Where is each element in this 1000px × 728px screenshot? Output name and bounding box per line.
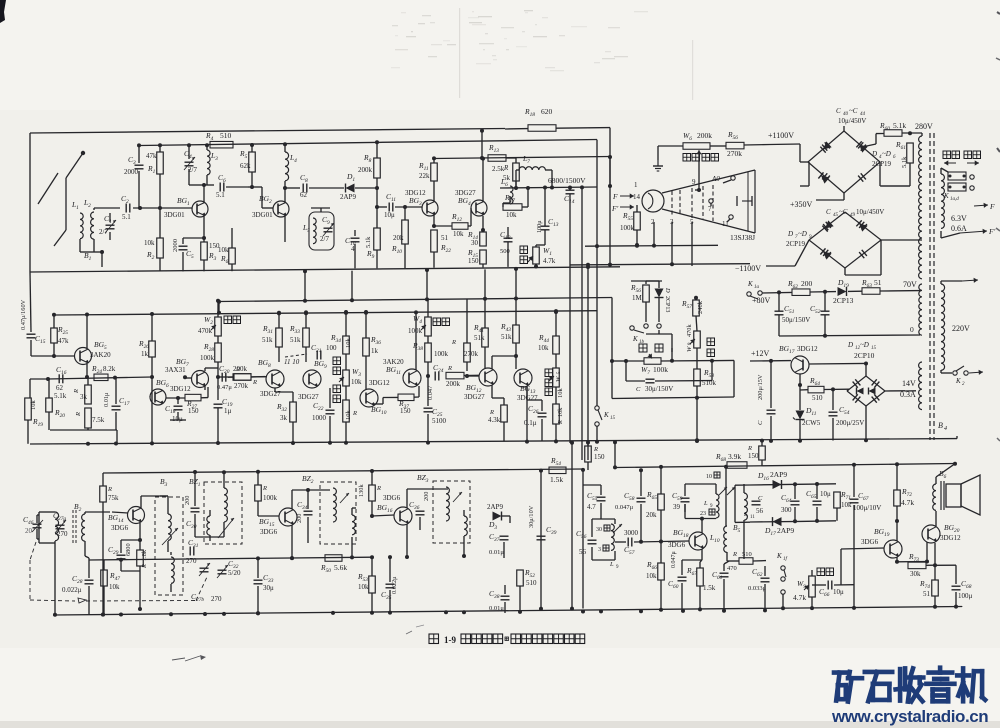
capacitor C12 500 [500, 230, 513, 255]
label 11 10 [284, 358, 300, 366]
osc tank top [685, 484, 716, 519]
wire frame left vertical [29, 133, 31, 272]
svg-text:130k: 130k [358, 484, 365, 497]
ecap C68 100u [952, 579, 973, 600]
BZ1 coil [218, 488, 234, 538]
svg-text:K: K [776, 552, 782, 560]
trimmer C32 5/20 [217, 559, 241, 578]
bridge2 diodes [820, 220, 867, 259]
svg-text:~C: ~C [839, 208, 848, 216]
wire R21s [433, 252, 435, 268]
wire R74 [933, 596, 937, 609]
svg-text:2CP19: 2CP19 [786, 240, 806, 248]
wire W1 [534, 245, 545, 269]
wire R36 [364, 310, 368, 389]
capacitor C30 200 [184, 496, 200, 530]
svg-text:270k: 270k [234, 382, 249, 390]
svg-text:F′: F′ [988, 227, 996, 236]
resistor R74 51 [919, 579, 938, 598]
wire L3 [204, 143, 214, 185]
wire BG5 emitter [85, 364, 89, 379]
ecap C54 200u/25V [829, 405, 865, 427]
capacitor C60 0.047u [668, 551, 687, 590]
wire R60 [862, 131, 922, 147]
svg-text:5.1: 5.1 [216, 191, 225, 199]
wire C6 right [226, 186, 248, 188]
svg-text:2CP10: 2CP10 [854, 351, 875, 360]
wire bright node left [612, 359, 644, 363]
tank L9 arrow [613, 524, 622, 533]
pot W3 10k [339, 367, 362, 386]
wire BG2 collector [284, 188, 286, 202]
label B1 [84, 251, 92, 262]
svg-text:100k: 100k [434, 350, 449, 358]
svg-text:2/7: 2/7 [99, 228, 108, 236]
svg-text:3: 3 [598, 547, 601, 553]
svg-text:200: 200 [184, 496, 191, 505]
svg-text:0: 0 [910, 325, 914, 334]
svg-text:C: C [757, 420, 764, 425]
svg-text:1-9: 1-9 [444, 635, 456, 645]
resistor R38 100k [412, 341, 449, 362]
svg-text:200k: 200k [446, 380, 461, 388]
svg-text:22k: 22k [419, 172, 430, 180]
capacitor C16 62 [56, 365, 67, 392]
tank L5 C9 [302, 212, 334, 250]
labels R14 [467, 230, 479, 247]
wire C29 [121, 540, 140, 571]
svg-text:470: 470 [727, 565, 737, 572]
svg-text:R: R [262, 485, 267, 492]
wire R71 [836, 508, 838, 521]
svg-text:+12V: +12V [751, 349, 770, 358]
wire +1100V [770, 144, 809, 162]
svg-text:F: F [612, 192, 618, 201]
wire top frame [30, 129, 505, 134]
svg-text:R: R [75, 412, 82, 417]
capacitor C15 [20, 299, 46, 344]
svg-text:3DG01: 3DG01 [164, 211, 185, 219]
winding 6.3V [941, 174, 944, 228]
resistor R41 51k [473, 323, 488, 347]
speaker [946, 475, 980, 515]
capacitor C31 270 [190, 547, 194, 556]
transistor BG12 3DG27 [464, 368, 497, 401]
rail y264 [570, 263, 750, 267]
wire R46 [102, 473, 104, 515]
resistor R70 150 [759, 446, 766, 460]
resistor R33 51k [289, 324, 309, 347]
wire B3 sec [170, 552, 172, 592]
resistor R27 150 [185, 394, 201, 415]
svg-text:3k: 3k [280, 414, 288, 422]
capacitor C34 200 [296, 500, 313, 523]
wire AGC [89, 556, 371, 562]
label C20 [217, 364, 248, 391]
svg-text:100k: 100k [653, 365, 668, 374]
svg-text:2/7: 2/7 [320, 235, 329, 243]
transformer core [930, 133, 934, 440]
label BZ3 [417, 473, 429, 484]
svg-text:5.1k: 5.1k [365, 236, 372, 248]
resistor R31 51k [262, 324, 282, 347]
wire R2 [159, 208, 161, 271]
pot W8 470k [686, 324, 700, 352]
wire C51 [777, 290, 781, 336]
svg-text:4.3k: 4.3k [488, 416, 501, 424]
svg-text:~C: ~C [849, 107, 858, 115]
label 0 tap [910, 325, 914, 334]
wire R64 [800, 385, 849, 391]
resistor R63 51 [861, 278, 882, 294]
svg-text:10μ: 10μ [820, 490, 831, 498]
svg-text:0.022μ: 0.022μ [62, 586, 82, 594]
svg-text:K: K [943, 192, 949, 200]
resistor R9 5.1k [365, 228, 380, 260]
capacitor C8 62 [300, 173, 308, 199]
svg-text:1a,d: 1a,d [950, 197, 959, 202]
wire R12 [434, 208, 471, 226]
svg-text:270k: 270k [727, 149, 742, 158]
wire CRT F leads [611, 192, 634, 213]
labels R21s [440, 234, 451, 254]
label 3000 C57 [624, 529, 639, 556]
labels R8 [358, 153, 373, 174]
wire crt pin2 drop [652, 222, 656, 248]
bridge D4-D6 diodes [818, 141, 867, 183]
resistor R28 100k [200, 342, 221, 362]
wire BG4 collector [481, 157, 485, 201]
svg-text:+80V: +80V [752, 296, 771, 305]
wire R38 down [426, 362, 430, 378]
bridge D4-D6 [808, 131, 880, 193]
wire x572 down [570, 441, 574, 611]
wire BG19 emitter [895, 557, 927, 564]
svg-text:3DG6: 3DG6 [668, 541, 686, 549]
inductor L4 [285, 152, 297, 181]
transistor BG18 3DG6 [668, 528, 707, 550]
wire BG1 emitter [203, 216, 205, 238]
wire bridge right [879, 162, 881, 186]
resistor R47 10k [101, 570, 121, 591]
resistor R39 200k [446, 365, 464, 388]
svg-text:50μ/150V: 50μ/150V [782, 316, 810, 324]
svg-text:8.2k: 8.2k [103, 365, 116, 373]
wire C67 [852, 463, 856, 610]
diode D1 2AP9 [340, 172, 356, 201]
svg-text:10k: 10k [506, 211, 517, 219]
wire C36 [419, 517, 421, 530]
wire C8 [285, 187, 344, 189]
svg-text:5100: 5100 [432, 417, 447, 425]
wire BG4 emitter [481, 216, 485, 232]
switch K14 block [948, 172, 974, 191]
ecap C53 200u/15V [757, 374, 776, 425]
BZ1 box [204, 482, 242, 544]
wire R66 [659, 542, 663, 612]
resistor R26 1k [138, 339, 155, 358]
capacitor C38 0.01u [489, 589, 510, 612]
resistor R44 10k [538, 333, 559, 354]
wire +350V [816, 186, 910, 200]
ecap C67 100u/10V [850, 491, 882, 512]
wire C33 [256, 558, 260, 615]
svg-text:51: 51 [441, 234, 449, 242]
label TV radio switch [943, 151, 981, 159]
ecap C50 [636, 379, 673, 393]
transistor BG16 3DG6 [377, 494, 412, 525]
transformer B2 [55, 510, 85, 543]
wire B6 [936, 462, 957, 525]
wire 220V bottom switch [941, 370, 952, 373]
wire R15 [482, 264, 484, 267]
wire rail to B4 [956, 436, 958, 439]
svg-text:470k: 470k [686, 324, 693, 337]
volume pot W9 4.7k [793, 576, 815, 602]
wire W4 [427, 299, 429, 343]
label 10 turns [706, 472, 720, 480]
vertical x103 down [101, 515, 105, 617]
svg-text:200μ/15V: 200μ/15V [757, 374, 764, 400]
resistor R4 510 [205, 131, 233, 148]
wire R41 [484, 299, 486, 368]
svg-text:100: 100 [326, 344, 337, 352]
svg-text:3DG6: 3DG6 [111, 524, 129, 532]
capacitor C55 4.7 [587, 491, 606, 511]
wire BG14 emitter [138, 523, 142, 542]
wire K15 down [595, 426, 599, 444]
resistor R51 130k [358, 484, 381, 501]
stray mark bottom-left [172, 655, 206, 661]
svg-text:D: D [847, 341, 853, 349]
svg-text:5.1: 5.1 [122, 213, 131, 221]
transistor BG17 3DG12 [779, 344, 818, 374]
crt grid dashes [672, 185, 713, 221]
svg-text:1.5k: 1.5k [550, 475, 563, 484]
diode D16 2AP9 [757, 470, 787, 489]
svg-text:1: 1 [634, 181, 638, 189]
svg-text:~D: ~D [798, 230, 807, 238]
wire C14 [569, 188, 571, 283]
rail y245 [585, 244, 718, 248]
capacitor C63 56 [752, 495, 764, 515]
resistor R20 5.1k [46, 392, 67, 419]
wire bright box [611, 298, 613, 362]
wire x615 link [613, 440, 617, 469]
wire R28 down [216, 362, 220, 400]
svg-text:5.1k: 5.1k [893, 121, 906, 130]
transformer B3 box [155, 497, 183, 595]
wire x152 down [150, 377, 154, 445]
radio tank2 box [0, 0, 1, 1]
label pin9 [692, 178, 696, 186]
crt funnel [662, 170, 755, 233]
wire R10 [403, 205, 407, 268]
wire L7 [516, 170, 552, 188]
svg-text:200μ/25V: 200μ/25V [836, 419, 864, 427]
svg-text:3k: 3k [80, 393, 88, 401]
wire row BG7 base [205, 368, 265, 377]
svg-text:510k: 510k [702, 379, 717, 387]
resistor R67 1.5k [686, 566, 716, 592]
wire C2 to node [133, 206, 192, 210]
svg-text:150: 150 [400, 407, 411, 415]
capacitor C5 2000 [172, 239, 194, 260]
wire 220V top [941, 278, 978, 284]
ecap C39 30u/10V [528, 505, 557, 540]
svg-text:200k: 200k [697, 131, 712, 140]
svg-text:100k: 100k [200, 354, 215, 362]
svg-text:2CP13: 2CP13 [664, 296, 670, 312]
resistor R64 510 [808, 376, 824, 402]
resistor R6 10k [229, 248, 236, 264]
resistor R48 1.8k [137, 549, 148, 569]
rail bottom of TV section [30, 267, 620, 272]
svg-text:+350V: +350V [790, 200, 813, 209]
wire BZ1 sec [207, 510, 210, 541]
wire C46 box [37, 515, 39, 539]
svg-text:270k: 270k [464, 350, 479, 358]
svg-text:R: R [489, 409, 494, 416]
label aux focus [683, 154, 719, 162]
resistor R43 51k [500, 322, 519, 343]
transistor BG20 3DG12 [922, 523, 961, 543]
wire BG14 base [112, 512, 128, 513]
svg-text:R: R [593, 446, 598, 453]
ecap C65 10u [806, 489, 831, 505]
wire to BG8 [228, 376, 267, 379]
wire C19 [216, 408, 220, 445]
label pin14 [633, 193, 641, 201]
wire BG15 base [258, 512, 279, 516]
resistor R62 200 [787, 279, 813, 295]
svg-text:270: 270 [57, 530, 68, 538]
wire C38 [504, 585, 506, 613]
wire L10 [724, 465, 728, 526]
svg-text:10μ/450V: 10μ/450V [838, 117, 866, 125]
svg-text:3DG6: 3DG6 [260, 528, 278, 536]
pin8 contact [737, 196, 752, 206]
svg-text:62k: 62k [240, 162, 251, 170]
tank arrows [719, 487, 735, 495]
svg-text:300: 300 [781, 506, 792, 514]
capacitor C35 0.022u [381, 576, 398, 601]
node row y377 [46, 376, 152, 381]
label BZ1 [189, 477, 201, 488]
capacitor C17 0.01u [103, 392, 130, 410]
wire R20 [48, 379, 50, 430]
wire BG10 emitter [374, 397, 398, 404]
resistor R29 200k [234, 374, 257, 386]
switch K1b [630, 324, 661, 345]
transistor BG9 3DG27 [298, 359, 327, 401]
svg-text:10k: 10k [538, 344, 549, 352]
resistor R59 150 [585, 446, 592, 462]
svg-text:10k: 10k [144, 239, 155, 247]
label line freq [433, 318, 450, 326]
dash to crt pins [285, 354, 307, 357]
wire D1 right [355, 186, 379, 190]
svg-text:~D: ~D [882, 150, 891, 158]
wire 70V box bottom [779, 334, 920, 338]
resistor R42 4.3k [501, 405, 508, 422]
rail mid main [219, 298, 612, 302]
wire BG12 base [465, 374, 479, 378]
wire crt pin5 drop [691, 222, 693, 266]
resistor R35 10k [343, 400, 357, 422]
switch K2 [953, 366, 983, 387]
wire L6 R17 [503, 186, 530, 207]
transistor BG11 3AK20 [383, 358, 421, 387]
transistor BG4 [455, 189, 487, 216]
resistor R20b 270k [233, 366, 251, 390]
inductor L11 [743, 484, 755, 559]
svg-text:70V: 70V [903, 280, 917, 289]
capacitor C3 2000 [124, 155, 144, 176]
resistor R46 75k [100, 486, 119, 502]
labels R5 [239, 149, 251, 170]
wire R27 [166, 387, 208, 398]
svg-text:0.47μ/160V: 0.47μ/160V [20, 299, 27, 330]
svg-text:0.01μ: 0.01μ [103, 392, 110, 407]
diode D17 2AP9 [764, 517, 794, 537]
svg-text:3.9k: 3.9k [728, 452, 741, 461]
resistor R50 5.6k [320, 555, 347, 574]
wire CRT pin9 row [662, 189, 755, 191]
svg-text:11 10: 11 10 [284, 358, 300, 366]
resistor R13 2.5k [488, 143, 506, 173]
wire R5 [248, 143, 262, 189]
svg-text:3DG6: 3DG6 [861, 538, 879, 546]
label C40-C44 [836, 107, 866, 125]
label focus chars [707, 338, 715, 357]
svg-text:0.022μ: 0.022μ [391, 576, 398, 594]
wire K15 vertical [596, 404, 598, 406]
svg-text:2000: 2000 [124, 168, 139, 176]
wire R42 [492, 385, 504, 442]
trimmer C4 2/7 [184, 149, 197, 174]
wire winding taps [0, 0, 1, 1]
vertical links top-mid [303, 268, 487, 303]
svg-text:K: K [632, 335, 638, 343]
svg-text:20k: 20k [646, 511, 657, 519]
svg-text:220V: 220V [952, 324, 970, 333]
svg-text:7: 7 [708, 205, 712, 213]
svg-text:10k: 10k [30, 400, 37, 411]
svg-text:100k: 100k [408, 327, 423, 335]
wire x516 link [514, 267, 518, 301]
svg-text:10k: 10k [345, 410, 352, 421]
wire C15 [30, 272, 75, 356]
wire C66 [812, 584, 854, 586]
coil L9b [716, 484, 719, 519]
svg-text:10μ: 10μ [833, 588, 844, 596]
wire C12 [507, 227, 509, 267]
diode D3 2AP9 [487, 503, 503, 531]
pot W7 100k [641, 354, 668, 376]
wire R25 [52, 313, 56, 358]
wire jog x482 [480, 129, 484, 158]
wire BZ3 prim [0, 0, 1, 1]
capacitor C21 100 [311, 343, 337, 360]
svg-text:R: R [252, 379, 257, 386]
svg-text:C: C [826, 208, 831, 216]
resistor R57 240k [681, 299, 704, 316]
svg-text:R: R [503, 164, 509, 172]
resistor R36 1k [363, 335, 382, 356]
label L9b [700, 500, 715, 517]
svg-text:F′: F′ [611, 204, 619, 213]
